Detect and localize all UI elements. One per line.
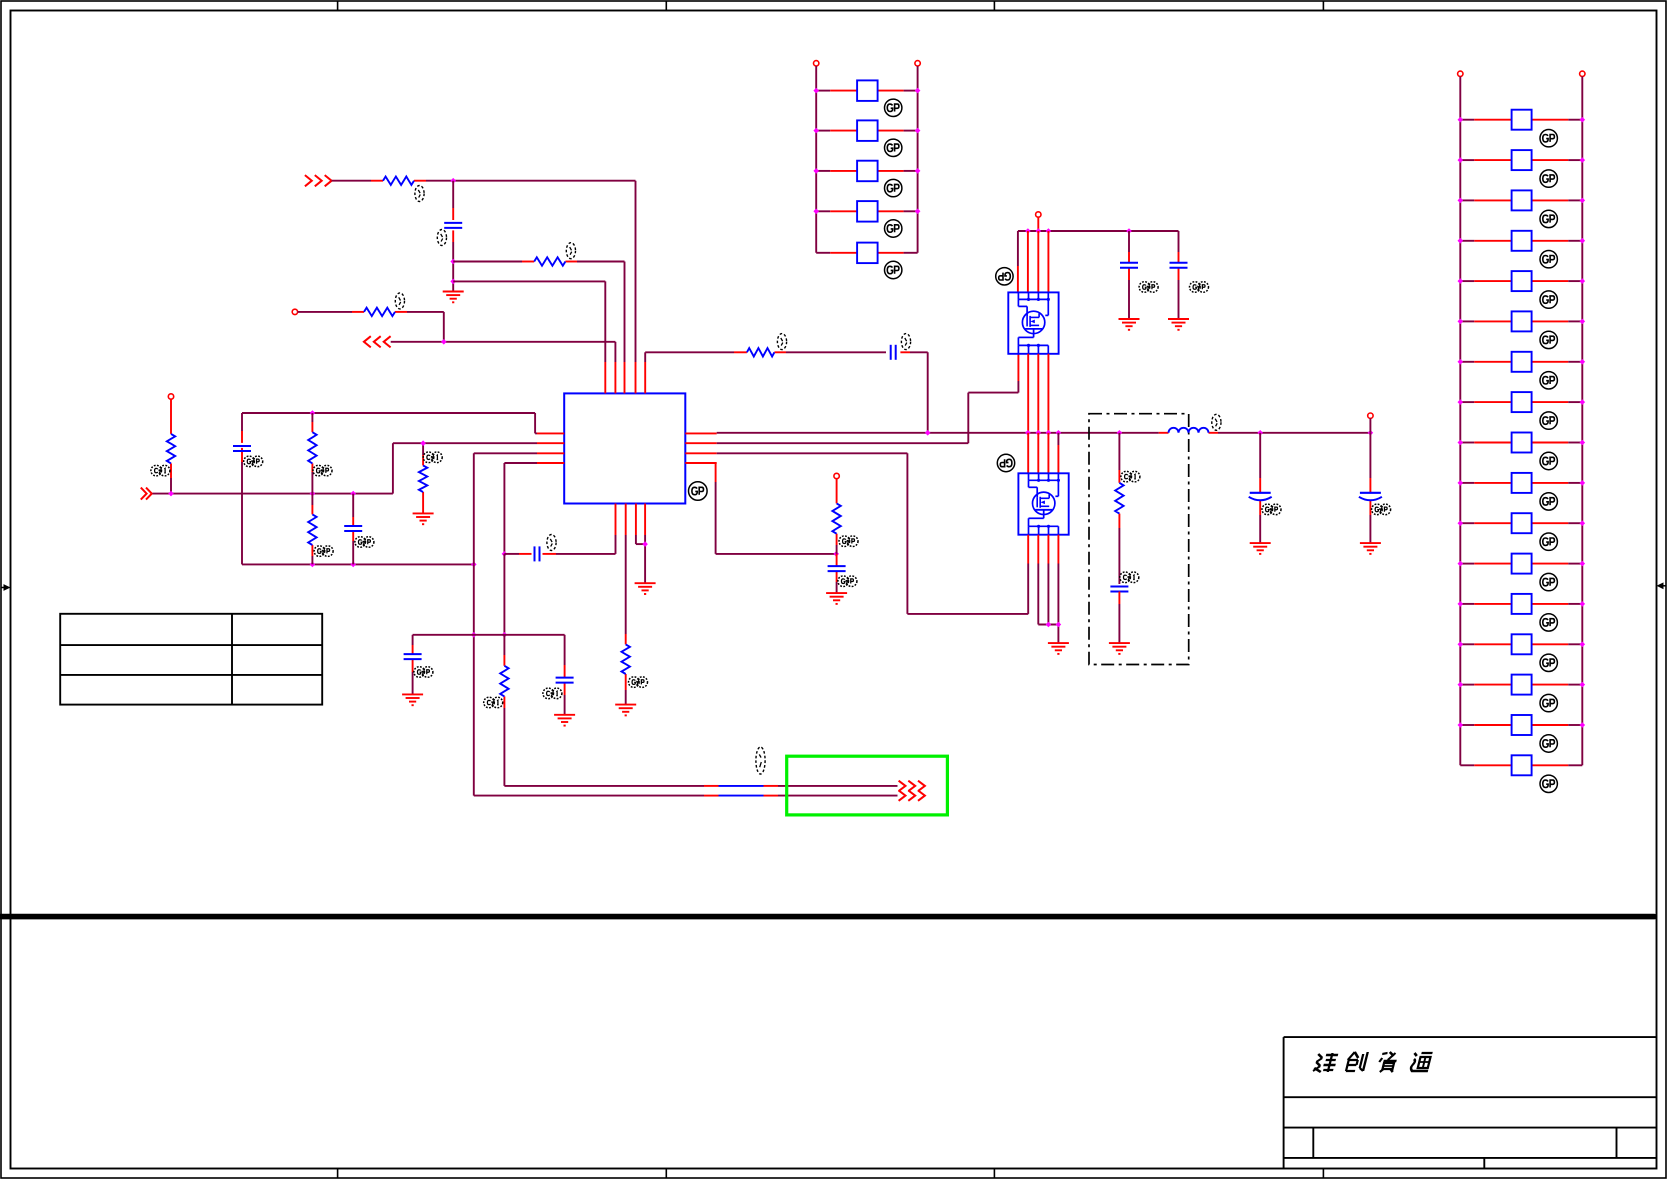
capacitor C10 wires: [1178, 252, 1180, 319]
inductor L1: [1169, 428, 1209, 433]
ground GND3: [402, 694, 423, 705]
junction J1: [450, 178, 456, 184]
resistor RM7: [1460, 352, 1582, 372]
resistor R3: [364, 308, 395, 316]
label GP RM9: [1540, 452, 1557, 469]
wire net18: [717, 354, 1019, 443]
resistor R6: [308, 432, 316, 463]
label R3: [395, 293, 404, 309]
junction RN2a: [813, 128, 819, 134]
resistor R6 wires: [311, 413, 313, 494]
capacitor C9: [1120, 263, 1138, 268]
junction RM2b: [1580, 157, 1586, 163]
label GP Q2: [997, 454, 1014, 471]
wire net11: [474, 453, 537, 795]
junction RM8b: [1580, 399, 1586, 405]
junction RM9a: [1458, 440, 1464, 446]
junction J20: [1046, 228, 1052, 234]
green box: [787, 756, 948, 815]
junction RM1a: [1458, 117, 1464, 123]
junction RM3b: [1580, 198, 1586, 204]
label R12: [1121, 471, 1140, 482]
capacitor C10: [1170, 263, 1188, 268]
ground GND7: [826, 593, 847, 604]
terminal T9: [1368, 413, 1373, 418]
capacitor C5: [535, 546, 540, 561]
junction RM15b: [1580, 682, 1586, 688]
label GP RM15: [1540, 694, 1557, 711]
label R5: [151, 465, 170, 476]
ground GND5: [615, 705, 636, 716]
label C7: [543, 688, 562, 699]
wire netout2: [474, 795, 898, 797]
capacitor C4 wires: [352, 494, 354, 565]
junction J23: [1025, 430, 1031, 436]
capacitor C4: [344, 526, 362, 531]
label R11: [839, 536, 858, 547]
junction J28: [1046, 622, 1052, 628]
label R9: [484, 697, 503, 708]
resistor RM17: [1460, 755, 1582, 775]
port P5 arrows: [899, 790, 925, 800]
wire net13: [504, 535, 615, 554]
resistor RM16: [1460, 715, 1582, 735]
capacitor C13 wires: [1369, 433, 1371, 543]
junction J12: [420, 440, 426, 446]
junction RN4b: [915, 209, 921, 215]
capacitor C8: [828, 566, 846, 571]
wire q2top: [1028, 433, 1058, 474]
junction RM10a: [1458, 480, 1464, 486]
junction J18: [1025, 228, 1031, 234]
label GP RM7: [1540, 372, 1557, 389]
label C10: [1190, 282, 1209, 293]
wire t8stub: [1037, 217, 1039, 231]
label GP RN3: [885, 179, 902, 196]
terminal T6: [168, 394, 173, 399]
junction J5: [168, 491, 174, 497]
junction J27: [1117, 430, 1123, 436]
label R1: [415, 186, 424, 202]
wire q1top: [1018, 231, 1049, 292]
capacitor C6: [404, 654, 422, 659]
label R6: [313, 465, 332, 476]
junction J2: [450, 259, 456, 265]
resistor RM4: [1460, 231, 1582, 251]
resistor RM12: [1460, 554, 1582, 574]
port P3 arrows: [141, 488, 152, 500]
junction RM12a: [1458, 561, 1464, 567]
ic U1 top pins: [605, 362, 645, 393]
resistor R8: [419, 466, 427, 493]
label R8: [423, 452, 442, 463]
wire bus231: [1018, 231, 1179, 252]
ground GND2: [413, 513, 434, 524]
resistor RN2: [816, 120, 917, 140]
wire net20: [716, 463, 837, 554]
label C3: [244, 456, 263, 467]
wire net1: [332, 181, 636, 362]
junction RM2a: [1458, 157, 1464, 163]
wire net1-cap: [452, 181, 454, 220]
capacitor C12: [1249, 493, 1272, 501]
label GP RM14: [1540, 654, 1557, 671]
label GP RM6: [1540, 331, 1557, 348]
resistor RN4: [816, 201, 917, 222]
label GP RM10: [1540, 493, 1557, 510]
wire t9stub: [1369, 418, 1371, 432]
junction J6: [310, 491, 316, 497]
resistor R12 wires: [1118, 433, 1120, 584]
resistor RM10: [1460, 473, 1582, 493]
label R2: [566, 243, 575, 259]
junction J26: [1056, 430, 1062, 436]
bus seg2: [719, 795, 764, 797]
label C9: [1139, 282, 1158, 293]
wire net8: [153, 443, 538, 493]
wire c11gnd: [1118, 592, 1120, 644]
junction RM3a: [1458, 198, 1464, 204]
wire net16: [564, 635, 566, 715]
inductor L1 wires: [1159, 432, 1371, 434]
capacitor C8 wires: [836, 554, 838, 593]
terminal T4: [1580, 71, 1585, 765]
ic U1: [564, 393, 685, 503]
ground GND4: [554, 715, 575, 726]
resistor RN5: [816, 243, 917, 264]
label R10: [629, 677, 648, 688]
terminal T5: [292, 309, 297, 314]
wire net2: [453, 262, 624, 363]
label GP RM17: [1540, 775, 1557, 792]
wire net14: [503, 554, 505, 635]
port P4 arrows: [899, 781, 925, 791]
junction RN1b: [915, 88, 921, 94]
junction RN2b: [915, 128, 921, 134]
junction J13: [502, 551, 508, 557]
junction J14: [502, 632, 508, 638]
label C12: [1262, 504, 1281, 515]
junction RM6b: [1580, 319, 1586, 325]
junction RM13a: [1458, 601, 1464, 607]
junction J31: [1368, 430, 1374, 436]
junction J25: [1046, 430, 1052, 436]
resistor R4: [747, 348, 775, 356]
wire net5: [391, 342, 616, 362]
label GP RM12: [1540, 573, 1557, 590]
resistor R8 wires: [422, 443, 424, 513]
junction RM16a: [1458, 722, 1464, 728]
junction RM16b: [1580, 722, 1586, 728]
dashed box: [1089, 414, 1189, 665]
label C4: [355, 537, 374, 548]
resistor RM13: [1460, 594, 1582, 614]
separator thick line: [0, 914, 1654, 920]
port P2 arrows: [364, 336, 391, 347]
label R7: [314, 546, 333, 557]
junction RM11a: [1458, 520, 1464, 526]
capacitor C1: [444, 223, 462, 228]
resistor RM1: [1460, 110, 1582, 130]
label GP Q1: [996, 268, 1013, 285]
ground GND13: [1360, 543, 1381, 554]
resistor R11: [832, 503, 840, 533]
title block grid: [1284, 1037, 1657, 1168]
resistor RM8: [1460, 392, 1582, 412]
resistor RM14: [1460, 634, 1582, 654]
junction RM14b: [1580, 642, 1586, 648]
resistor RM9: [1460, 433, 1582, 453]
resistor R9: [500, 666, 508, 697]
junction RM1b: [1580, 117, 1586, 123]
company logo text: [1313, 1052, 1433, 1072]
wire net7: [170, 399, 172, 493]
resistor R9 wires: [503, 635, 505, 786]
junction RM10b: [1580, 480, 1586, 486]
label R4: [777, 334, 786, 350]
label GP RM4: [1540, 251, 1557, 268]
terminal T7: [834, 473, 839, 478]
resistor RM3: [1460, 190, 1582, 210]
junction J30: [1257, 430, 1263, 436]
resistor R7 wires: [311, 494, 313, 565]
junction J16: [642, 541, 648, 547]
label C2: [901, 334, 910, 350]
capacitor C7: [556, 678, 574, 683]
ic U1 right pins: [685, 433, 716, 463]
junction RM7a: [1458, 359, 1464, 365]
junction J11: [471, 562, 477, 568]
junction RM14a: [1458, 642, 1464, 648]
ground GND11: [1109, 643, 1130, 654]
junction RM8a: [1458, 399, 1464, 405]
junction J7: [350, 491, 356, 497]
label L1: [1212, 414, 1221, 430]
terminal T2: [915, 61, 920, 253]
wire net9 left: [241, 413, 243, 564]
junction RM6a: [1458, 319, 1464, 325]
junction RN3a: [813, 168, 819, 174]
junction J4: [441, 339, 447, 345]
transistor Q2: [1018, 473, 1068, 534]
wire net6: [645, 352, 928, 433]
resistor R2: [534, 257, 565, 265]
junction RM12b: [1580, 561, 1586, 567]
terminal T8: [1036, 212, 1041, 217]
ground GND8: [1048, 643, 1069, 654]
wire q1bot: [1028, 354, 1048, 433]
wire net3: [453, 281, 605, 362]
label out: [756, 747, 765, 774]
capacitor C12 wires: [1259, 433, 1261, 543]
ground GND10: [1168, 319, 1189, 330]
junction J22: [925, 430, 931, 436]
resistor RM11: [1460, 513, 1582, 533]
label GP RM2: [1540, 170, 1557, 187]
resistor R5: [167, 434, 175, 464]
label C5: [547, 535, 556, 551]
label C11: [1120, 572, 1139, 583]
revision table: [60, 614, 322, 705]
junction J3: [450, 279, 456, 285]
junction RM13b: [1580, 601, 1586, 607]
label GP U1: [689, 482, 708, 501]
label GP RN1: [885, 99, 902, 116]
resistor RN3: [816, 161, 917, 182]
junction J24: [1036, 430, 1042, 436]
terminal T3: [1458, 71, 1463, 765]
junction J8: [310, 410, 316, 416]
wire net4: [298, 312, 444, 342]
junction RM5a: [1458, 278, 1464, 284]
resistor R7: [308, 514, 316, 545]
junction J17: [833, 551, 839, 557]
capacitor C9 wires: [1128, 231, 1130, 319]
wire net2v: [452, 230, 454, 291]
capacitor C3: [233, 446, 251, 451]
junction J10: [350, 562, 356, 568]
junction J15: [471, 632, 477, 638]
junction RM11b: [1580, 520, 1586, 526]
bus seg1: [719, 785, 764, 787]
ground GND1: [443, 292, 464, 303]
junction RN4a: [813, 209, 819, 215]
resistor RM2: [1460, 150, 1582, 170]
transistor Q1: [1008, 292, 1058, 353]
label GP RM11: [1540, 533, 1557, 550]
wire net9 top: [242, 413, 537, 433]
resistor RM15: [1460, 675, 1582, 695]
capacitor C11: [1110, 587, 1128, 592]
junction RM9b: [1580, 440, 1586, 446]
label C13: [1372, 504, 1391, 515]
resistor R12: [1115, 483, 1123, 514]
wire net17: [636, 535, 645, 583]
resistor RM5: [1460, 271, 1582, 291]
wire net10: [242, 563, 474, 565]
resistor R1: [383, 177, 414, 185]
wire q2bot: [1028, 535, 1058, 643]
label GP RM16: [1540, 735, 1557, 752]
junction RM4b: [1580, 238, 1586, 244]
wire net19: [717, 453, 1029, 614]
wire busmain: [717, 432, 1159, 434]
resistor R11 wires: [836, 479, 838, 554]
label GP RM13: [1540, 614, 1557, 631]
port P1 arrows: [305, 175, 332, 186]
wire net12: [504, 463, 537, 554]
junction RN1a: [813, 88, 819, 94]
junction J9: [310, 562, 316, 568]
resistor RN1: [816, 80, 917, 101]
junction RM15a: [1458, 682, 1464, 688]
junction RM5b: [1580, 278, 1586, 284]
label GP RN4: [885, 220, 902, 237]
ic U1 bottom pins: [616, 504, 646, 536]
resistor R10: [622, 644, 630, 674]
junction RN3b: [915, 168, 921, 174]
label GP RN5: [885, 261, 902, 278]
junction RM7b: [1580, 359, 1586, 365]
label GP RN2: [885, 139, 902, 156]
label C6: [414, 667, 433, 678]
capacitor C2: [891, 345, 896, 360]
capacitor C13: [1359, 493, 1382, 501]
label GP RM5: [1540, 291, 1557, 308]
resistor R10 wires: [625, 535, 627, 705]
label GP RM3: [1540, 210, 1557, 227]
wire netout1: [504, 785, 897, 787]
junction J29: [1056, 622, 1062, 628]
junction RM4a: [1458, 238, 1464, 244]
junction J19: [1036, 228, 1042, 234]
ground GND9: [1119, 319, 1140, 330]
ground GND12: [1250, 543, 1271, 554]
label C8: [838, 576, 857, 587]
label GP RM1: [1540, 130, 1557, 147]
junction J21: [1126, 228, 1132, 234]
ic U1 left pins: [537, 433, 564, 463]
label C1: [437, 230, 446, 246]
ground GND6: [635, 583, 656, 594]
wire net15: [413, 635, 565, 695]
label GP RM8: [1540, 412, 1557, 429]
resistor RM6: [1460, 311, 1582, 331]
terminal T1: [814, 61, 819, 253]
